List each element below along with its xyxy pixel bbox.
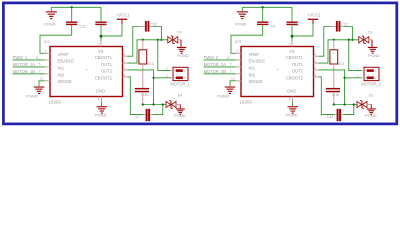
pin CBOOT1 stub [123, 55, 128, 57]
pin SENSE stub [45, 80, 51, 82]
svg-text:C13: C13 [293, 23, 300, 27]
svg-text:C7: C7 [136, 115, 141, 119]
pin OUT1 stub [314, 62, 319, 64]
capacitor C8 [100, 7, 102, 21]
svg-text:8: 8 [98, 97, 100, 101]
wire VCC to VS node [292, 24, 313, 36]
svg-text:PGND: PGND [174, 113, 186, 118]
svg-text:GND: GND [287, 88, 296, 93]
connector MOTOR_2 [364, 67, 379, 80]
svg-text:3: 3 [314, 66, 316, 70]
ground at SENSE [34, 87, 45, 88]
ground PGND (top-left) [241, 7, 243, 11]
svg-text:PGND: PGND [26, 93, 38, 98]
wire bootstrap2 cap to OUT2 run [344, 105, 354, 115]
svg-text:CBOOT2: CBOOT2 [286, 76, 304, 81]
svg-text:IN2: IN2 [58, 72, 65, 77]
wire diode2 to ground [176, 104, 181, 106]
svg-text:IN2: IN2 [249, 72, 256, 77]
diode D4 TVS [166, 101, 171, 107]
svg-text:MOTOR_2A: MOTOR_2A [204, 62, 227, 67]
wire CBOOT1 to cap [319, 27, 331, 57]
svg-text:10: 10 [40, 76, 44, 80]
svg-text:9: 9 [236, 50, 238, 54]
ground at D4 [176, 108, 185, 109]
wire PWM to ENABLE [204, 59, 236, 61]
svg-text:VS: VS [289, 49, 295, 54]
svg-text:2: 2 [357, 74, 359, 78]
svg-text:+VCC2: +VCC2 [307, 12, 321, 17]
svg-text:1: 1 [183, 69, 185, 73]
svg-text:5: 5 [39, 62, 41, 66]
wire PWM to ENABLE [13, 59, 45, 61]
svg-text:1: 1 [166, 66, 168, 70]
wire VCC to VS node [101, 24, 122, 36]
svg-text:OUT1: OUT1 [292, 62, 304, 67]
svg-text:PGND: PGND [177, 53, 189, 58]
wire SENSE to ground [230, 81, 236, 87]
svg-text:IN1: IN1 [249, 66, 256, 71]
svg-text:11: 11 [36, 55, 39, 59]
pin OUT2 stub [123, 69, 128, 71]
pin VREF stub [236, 52, 242, 54]
svg-text:ENABLE: ENABLE [58, 59, 75, 64]
svg-text:R21: R21 [338, 62, 345, 66]
svg-text:OUT2: OUT2 [101, 69, 113, 74]
pin CBOOT1 stub [314, 55, 319, 57]
svg-text:9: 9 [45, 50, 47, 54]
svg-text:SENSE: SENSE [58, 79, 72, 84]
wire CBOOT1 to cap [128, 27, 140, 57]
svg-text:6: 6 [314, 73, 316, 77]
wire snubber cap to OUT2 run [333, 92, 335, 104]
wire diode2 to ground [367, 104, 372, 106]
wire cap1 to VREF [40, 35, 72, 53]
svg-text:D2: D2 [369, 94, 374, 98]
svg-text:MOTOR_1: MOTOR_1 [170, 81, 190, 86]
svg-text:10: 10 [231, 76, 235, 80]
capacitor C13 [291, 7, 293, 21]
wire MOTOR_A to IN1 [13, 66, 45, 68]
wire MOTOR_B to IN2 [204, 73, 236, 75]
svg-text:2: 2 [96, 43, 100, 45]
svg-text:PGND: PGND [44, 22, 56, 27]
svg-text:ENABLE: ENABLE [249, 59, 266, 64]
capacitor C14 bootstrap 2 [319, 77, 335, 115]
ground at D1 [368, 47, 378, 48]
diode D3 TVS [168, 37, 173, 43]
wire MOTOR_B to IN2 [13, 73, 45, 75]
wire cap1 to VREF [231, 35, 263, 53]
svg-text:PGND: PGND [368, 53, 380, 58]
wire OUT2 run [143, 104, 166, 106]
svg-text:PGND: PGND [217, 93, 229, 98]
svg-text:7: 7 [230, 69, 232, 73]
svg-text:IN1: IN1 [58, 66, 65, 71]
wire OUT2 [319, 70, 345, 105]
node junction OUT2/run [343, 103, 345, 105]
wire diode to ground [178, 39, 181, 41]
svg-text:MOTOR_2B: MOTOR_2B [204, 69, 227, 74]
capacitor C15 [326, 88, 340, 90]
pin VS stub [100, 41, 102, 47]
ground at D3 [177, 47, 187, 48]
pin IN1 stub [236, 66, 242, 68]
schematic frame border [3, 3, 396, 124]
svg-text:GND: GND [96, 88, 105, 93]
wire MOTOR_A to IN1 [204, 66, 236, 68]
svg-text:IC2: IC2 [44, 40, 50, 44]
pin OUT1 stub [123, 62, 128, 64]
diode D2 TVS [357, 101, 362, 107]
op-amp IC IC3 L6203 motor driver [241, 47, 314, 97]
pin SENSE stub [236, 80, 242, 82]
svg-text:C12: C12 [341, 22, 348, 26]
svg-text:1: 1 [314, 60, 316, 64]
wire top ground rail [51, 6, 101, 8]
svg-text:CBOOT1: CBOOT1 [286, 55, 304, 60]
capacitor C11 [71, 7, 73, 21]
diode D1 TVS [359, 37, 364, 43]
junction dot on ground rail [71, 6, 73, 8]
wire IC GND pin to ground [101, 102, 103, 107]
svg-text:PWM_1: PWM_1 [13, 55, 28, 60]
capacitor C20 bootstrap 1 [140, 26, 145, 28]
svg-text:R23: R23 [147, 62, 154, 66]
svg-text:2: 2 [287, 43, 291, 45]
svg-text:8: 8 [289, 97, 291, 101]
wire OUT2 to motor pin 2 [154, 77, 171, 79]
resistor R23 [142, 40, 144, 50]
ground under IC [288, 106, 299, 107]
capacitor C9 [262, 7, 264, 21]
svg-text:C11: C11 [80, 25, 86, 29]
svg-text:PWM_2: PWM_2 [204, 55, 219, 60]
pin CBOOT2 stub [314, 76, 319, 78]
svg-text:MOTOR_2: MOTOR_2 [361, 81, 381, 86]
wire VS node to IC [291, 36, 293, 41]
pin GND stub [292, 97, 294, 102]
svg-text:MOTOR_1A: MOTOR_1A [13, 62, 36, 67]
wire cap to OUT1 rail [344, 27, 352, 40]
capacitor C19 [135, 88, 149, 90]
svg-text:PGND: PGND [286, 113, 298, 118]
pin CBOOT2 stub [123, 76, 128, 78]
svg-text:4: 4 [314, 53, 316, 57]
supply +VCC2 [308, 19, 318, 20]
svg-text:IC3: IC3 [235, 40, 241, 44]
node VS junction [291, 35, 294, 38]
ground at D2 [367, 108, 376, 109]
pin ENABLE stub [45, 59, 51, 61]
svg-text:11: 11 [227, 55, 230, 59]
svg-text:VREF: VREF [249, 52, 261, 57]
node junction OUT1/motor1 [157, 39, 159, 41]
svg-text:L6203: L6203 [49, 100, 62, 105]
svg-text:PGND: PGND [365, 113, 377, 118]
svg-text:CBOOT2: CBOOT2 [95, 76, 113, 81]
node junction cap/run [162, 103, 164, 105]
svg-text:D4: D4 [178, 94, 183, 98]
svg-text:VREF: VREF [58, 52, 70, 57]
svg-text:OUT1: OUT1 [101, 62, 113, 67]
svg-text:1: 1 [123, 60, 125, 64]
svg-text:L6203: L6203 [240, 100, 253, 105]
supply +VCC1 [117, 19, 127, 20]
svg-text:VS: VS [98, 49, 104, 54]
node junction OUT1/R [142, 39, 144, 41]
wire OUT1 to motor pin 1 [349, 40, 362, 71]
capacitor C12 bootstrap 1 [331, 26, 336, 28]
node junction OUT2/motor2 [152, 77, 154, 79]
wire cap to OUT1 rail [153, 27, 161, 40]
pin ENABLE stub [236, 59, 242, 61]
svg-text:4: 4 [123, 53, 125, 57]
svg-text:3: 3 [123, 66, 125, 70]
svg-text:C8: C8 [102, 23, 107, 27]
node junction OUT2/motor2 [343, 77, 345, 79]
ground at SENSE [225, 87, 236, 88]
ground PGND (top-left) [50, 7, 52, 11]
resistor R21 [333, 40, 335, 50]
svg-text:CBOOT1: CBOOT1 [95, 55, 113, 60]
pin IN1 stub [45, 66, 51, 68]
pin IN2 stub [45, 73, 51, 75]
wire SENSE to ground [39, 81, 45, 87]
svg-text:7: 7 [39, 69, 41, 73]
node junction OUT1/motor1 [348, 39, 350, 41]
svg-text:1: 1 [357, 66, 359, 70]
svg-text:5: 5 [230, 62, 232, 66]
wire OUT2 [128, 70, 154, 105]
wire top ground rail [242, 6, 292, 8]
svg-text:C20: C20 [150, 22, 157, 26]
wire diode to ground [369, 39, 372, 41]
wire bootstrap2 cap to OUT2 run [153, 105, 163, 115]
node junction OUT1/R [333, 39, 335, 41]
svg-text:C14: C14 [327, 115, 334, 119]
svg-text:+: + [176, 73, 178, 77]
svg-text:2: 2 [166, 74, 168, 78]
wire OUT1 rail [128, 40, 169, 63]
svg-text:D1: D1 [368, 30, 373, 34]
svg-text:MOTOR_1B: MOTOR_1B [13, 69, 36, 74]
op-amp IC IC2 L6203 motor driver [50, 47, 123, 97]
svg-text:2: 2 [374, 76, 376, 80]
wire OUT1 rail [319, 40, 360, 63]
pin VS stub [291, 41, 293, 47]
wire snubber cap to OUT2 run [142, 92, 144, 104]
svg-text:D3: D3 [177, 30, 182, 34]
svg-text:6: 6 [123, 73, 125, 77]
svg-text:2: 2 [183, 76, 185, 80]
pin VREF stub [45, 52, 51, 54]
pin GND stub [101, 97, 103, 102]
svg-text:+: + [141, 52, 143, 56]
node junction OUT2/run [152, 103, 154, 105]
pin OUT2 stub [314, 69, 319, 71]
svg-text:+: + [367, 73, 369, 77]
ground under IC [97, 106, 108, 107]
svg-text:SENSE: SENSE [249, 79, 263, 84]
svg-text:+: + [332, 52, 334, 56]
wire IC GND pin to ground [292, 102, 294, 107]
svg-text:1: 1 [374, 69, 376, 73]
pin IN2 stub [236, 73, 242, 75]
node VS junction [100, 35, 103, 38]
junction dot on ground rail [262, 6, 264, 8]
wire OUT2 run [334, 104, 357, 106]
wire VS node to IC [100, 36, 102, 41]
svg-text:C9: C9 [271, 25, 276, 29]
connector MOTOR_1 [173, 67, 188, 80]
svg-text:OUT2: OUT2 [292, 69, 304, 74]
wire OUT1 to motor pin 1 [158, 40, 171, 71]
svg-text:PGND: PGND [95, 113, 107, 118]
svg-text:+VCC1: +VCC1 [116, 12, 130, 17]
svg-text:PGND: PGND [235, 22, 247, 27]
node junction cap/run [353, 103, 355, 105]
capacitor C7 bootstrap 2 [128, 77, 144, 115]
wire OUT2 to motor pin 2 [345, 77, 362, 79]
